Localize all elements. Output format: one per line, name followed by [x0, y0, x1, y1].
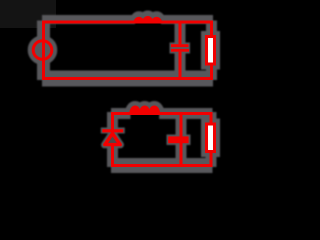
resistor R1 (top loop, boxed, white fill) — [207, 37, 215, 65]
wire: bottom loop, left wire upper lead — [111, 112, 114, 129]
wire: bottom loop, capacitor branch — [180, 112, 183, 166]
wire: top loop, left wire through source — [42, 21, 45, 81]
wire: top loop, capacitor branch upper lead — [179, 21, 182, 45]
capacitor C2 (merged thick plates) — [168, 136, 188, 143]
wire: bottom loop, top wire left segment — [111, 112, 131, 115]
wire: top loop, bottom wire — [42, 77, 213, 80]
capacitor C1 upper plate — [171, 44, 189, 47]
diode D1 cathode bar — [102, 129, 123, 132]
wire: bottom loop, top wire right segment — [159, 112, 212, 115]
wire: bottom loop, right-side upper lead — [210, 112, 213, 124]
diode D1 triangle (pointing up) — [105, 134, 120, 145]
wire: bottom loop, left wire lower lead — [111, 145, 114, 167]
resistor R2 (bottom loop, boxed, white fill) — [207, 124, 215, 152]
wire: top loop, top wire left segment — [42, 21, 135, 24]
capacitor C1 lower plate — [171, 49, 189, 52]
inductor L1 (top loop, humps over continuous top wire) — [135, 17, 162, 22]
wire: top loop, top wire right segment — [161, 21, 213, 24]
red circuit layer — [33, 17, 214, 167]
inductor L2 (bottom loop, humps over continuous top wire) — [130, 106, 159, 113]
wire: top loop, right-side lower lead — [210, 64, 213, 80]
wire: bottom loop, bottom wire — [111, 164, 213, 167]
wire: bottom loop, right-side lower lead — [210, 152, 213, 168]
wire: top loop, right-side upper lead — [210, 21, 213, 37]
current source I1 (circle on left wire) — [33, 41, 52, 60]
wire: top loop, capacitor branch lower lead — [179, 52, 182, 80]
